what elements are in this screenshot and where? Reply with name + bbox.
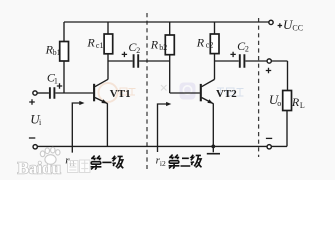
svg-text:2: 2 (136, 46, 140, 55)
svg-text:R: R (86, 35, 95, 49)
svg-text:c1: c1 (96, 41, 104, 50)
svg-text:b2: b2 (159, 43, 167, 52)
svg-text:R: R (291, 95, 300, 109)
svg-text:b1: b1 (53, 48, 61, 57)
svg-text:i2: i2 (160, 159, 166, 168)
svg-text:CC: CC (292, 24, 303, 33)
svg-text:R: R (150, 37, 159, 51)
svg-text:R: R (196, 35, 205, 49)
svg-text:VT2: VT2 (216, 88, 237, 100)
svg-text:o: o (277, 99, 281, 108)
svg-text:VT1: VT1 (110, 88, 131, 100)
svg-text:1: 1 (54, 77, 58, 86)
svg-text:L: L (300, 101, 305, 110)
svg-text:2: 2 (245, 45, 249, 54)
svg-text:c2: c2 (206, 41, 214, 50)
